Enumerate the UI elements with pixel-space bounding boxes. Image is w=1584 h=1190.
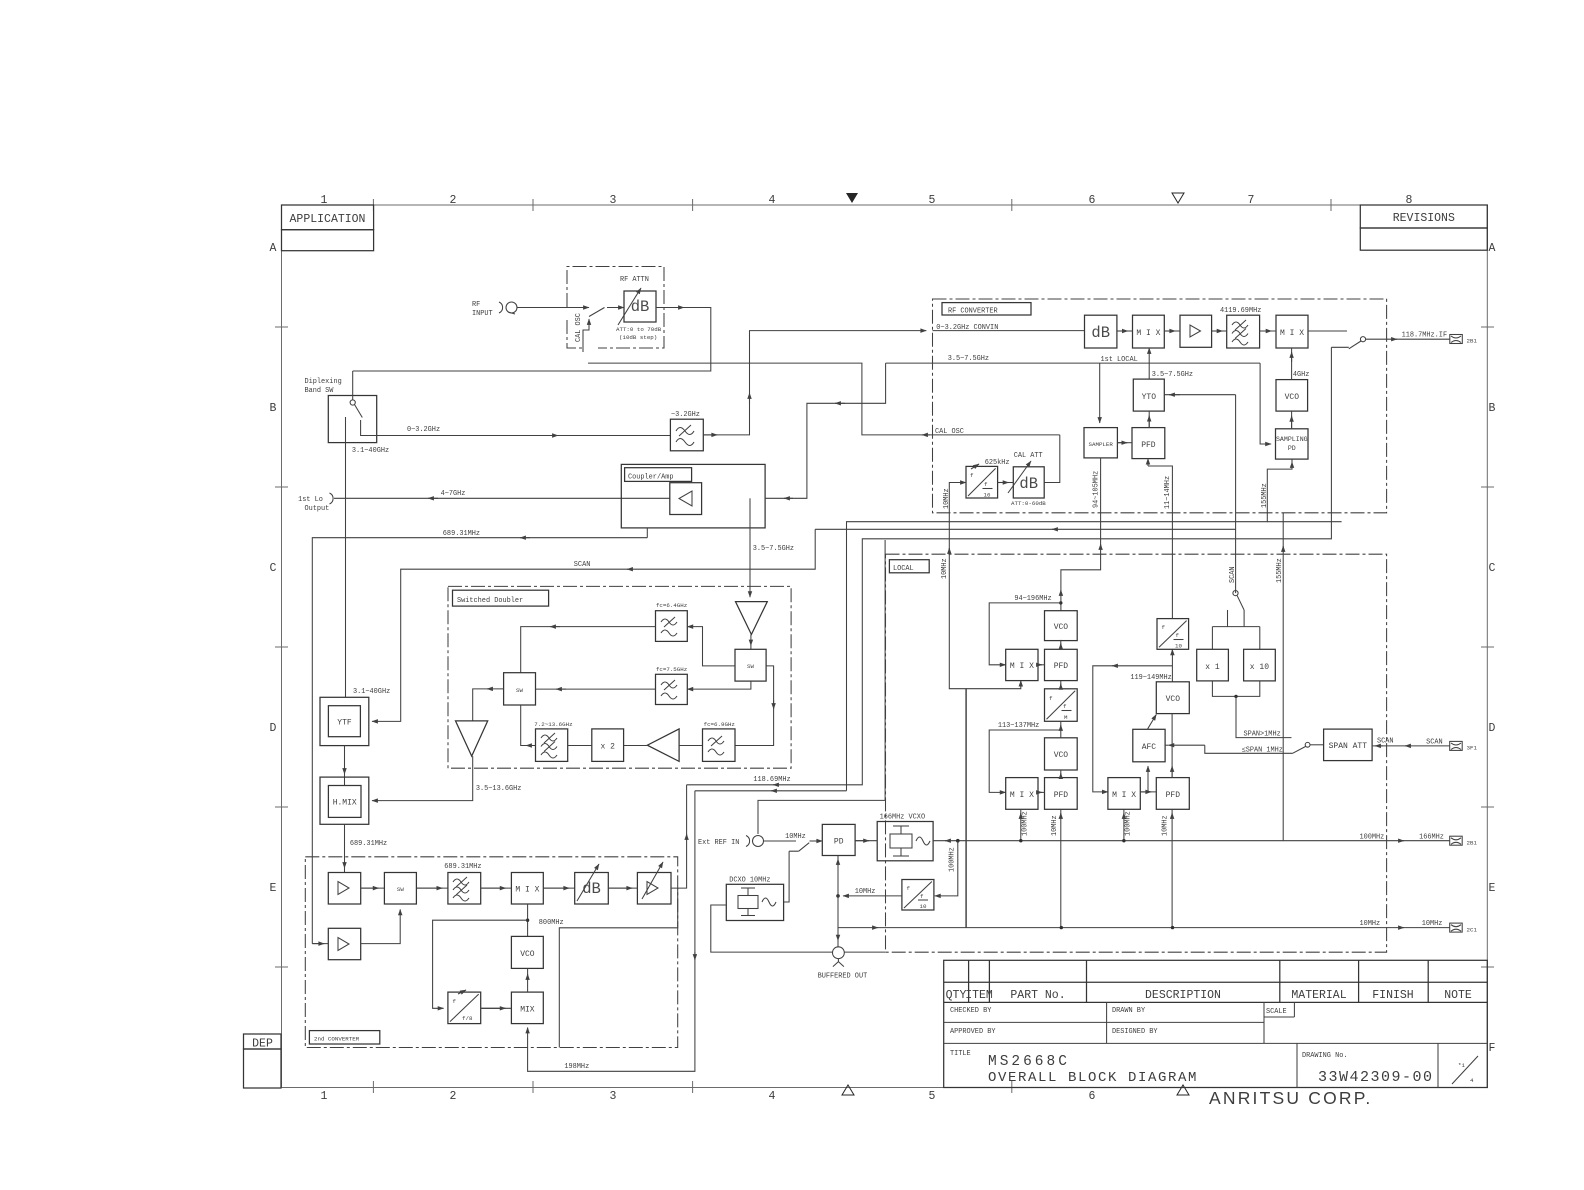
SCAN long line to left xyxy=(1267,521,1341,523)
svg-text:PFD: PFD xyxy=(1141,441,1156,450)
svg-text:BUFFERED OUT: BUFFERED OUT xyxy=(818,973,868,981)
svg-text:10MHz: 10MHz xyxy=(855,888,876,896)
SW right to 6.9 filter path xyxy=(735,666,774,746)
svg-text:3.5~7.5GHz: 3.5~7.5GHz xyxy=(1152,371,1193,379)
svg-text:DESIGNED BY: DESIGNED BY xyxy=(1112,1028,1158,1036)
svg-text:f: f xyxy=(1176,632,1180,639)
svg-text:689.31MHz: 689.31MHz xyxy=(443,530,480,538)
SAMPLING PD xyxy=(1276,429,1309,459)
SPAN ATT box xyxy=(1324,729,1373,761)
MIX2 xyxy=(511,992,543,1024)
SW right xyxy=(735,649,766,681)
svg-text:Diplexing: Diplexing xyxy=(305,378,342,386)
svg-text:M I X: M I X xyxy=(1112,791,1136,800)
svg-text:1st Lo: 1st Lo xyxy=(298,496,323,504)
svg-text:*1: *1 xyxy=(1458,1062,1465,1069)
svg-text:fc=6.4GHz: fc=6.4GHz xyxy=(656,602,688,609)
svg-text:MATERIAL: MATERIAL xyxy=(1291,989,1346,1002)
svg-text:LOCAL: LOCAL xyxy=(893,565,914,573)
column ticks top xyxy=(275,199,1494,1093)
revision triangles xyxy=(846,193,858,203)
svg-text:REVISIONS: REVISIONS xyxy=(1393,212,1455,225)
1st local line xyxy=(886,362,1261,364)
svg-text:3.1~40GHz: 3.1~40GHz xyxy=(353,688,390,696)
svg-text:10MHz: 10MHz xyxy=(1360,920,1381,928)
svg-text:D: D xyxy=(270,722,277,735)
dashed boundary xyxy=(886,554,1387,952)
MIX2/PFD2 bottom feeds xyxy=(1020,809,1022,840)
MIX2 xyxy=(1006,778,1038,810)
svg-text:3: 3 xyxy=(610,1090,617,1103)
switch xyxy=(799,843,810,852)
svg-text:SAMPLING: SAMPLING xyxy=(1276,436,1308,443)
svg-text:2: 2 xyxy=(450,194,457,207)
svg-text:Output: Output xyxy=(305,505,330,513)
RF ATTN unit dashed boundary xyxy=(567,267,664,349)
svg-text:~3.2GHz: ~3.2GHz xyxy=(671,411,700,419)
Coupler/Amp box xyxy=(621,464,765,528)
amp2 out up to 118.69 line xyxy=(671,785,687,888)
svg-text:Band SW: Band SW xyxy=(305,387,335,395)
title row xyxy=(1296,1043,1298,1087)
sampling pd left input from 1st local xyxy=(1260,363,1271,444)
svg-text:f: f xyxy=(1049,695,1053,702)
svg-text:D: D xyxy=(1489,722,1496,735)
svg-text:10MHz: 10MHz xyxy=(1051,815,1059,836)
sampler 94~105MHz down xyxy=(1061,458,1101,611)
PFD xyxy=(1132,428,1165,459)
svg-text:6: 6 xyxy=(1089,1090,1096,1103)
svg-text:fc=6.9GHz: fc=6.9GHz xyxy=(704,721,736,728)
svg-text:100MHz: 100MHz xyxy=(949,847,957,872)
svg-text:4~7GHz: 4~7GHz xyxy=(441,490,466,498)
MIX2 xyxy=(1276,315,1308,348)
x2 multiplier xyxy=(592,729,624,762)
svg-text:AFC: AFC xyxy=(1142,743,1157,752)
svg-text:Ext REF IN: Ext REF IN xyxy=(698,839,739,847)
svg-text:2B1: 2B1 xyxy=(1467,840,1478,847)
CAL switch xyxy=(589,308,605,317)
svg-text:689.31MHz: 689.31MHz xyxy=(350,840,387,848)
row letters xyxy=(270,242,1496,1055)
svg-text:VCO: VCO xyxy=(1054,623,1069,632)
svg-text:10MHz: 10MHz xyxy=(785,833,806,841)
amp1 xyxy=(328,873,360,905)
svg-text:f: f xyxy=(970,472,974,479)
dB amp U3 xyxy=(1085,315,1117,348)
amp2 control tap down xyxy=(559,888,677,1047)
svg-text:800MHz: 800MHz xyxy=(539,919,564,927)
amp2 variable xyxy=(637,873,671,905)
svg-text:SW: SW xyxy=(516,687,523,694)
svg-text:7: 7 xyxy=(1248,194,1255,207)
MIX1 xyxy=(1006,649,1038,680)
VCO xyxy=(511,936,543,968)
svg-text:113~137MHz: 113~137MHz xyxy=(998,722,1039,730)
column numbers xyxy=(321,194,1413,1103)
svg-text:4: 4 xyxy=(769,1090,776,1103)
svg-text:3F1: 3F1 xyxy=(1467,745,1478,752)
svg-text:DRAWN BY: DRAWN BY xyxy=(1112,1007,1146,1015)
svg-text:CAL ATT: CAL ATT xyxy=(1014,452,1043,460)
svg-text:FINISH: FINISH xyxy=(1372,989,1413,1002)
svg-text:7.2~13.6GHz: 7.2~13.6GHz xyxy=(534,721,573,728)
svg-text:QTY: QTY xyxy=(946,989,967,1002)
attenuator dB box A1 xyxy=(624,291,656,322)
svg-text:CHECKED BY: CHECKED BY xyxy=(950,1007,992,1015)
svg-text:H.MIX: H.MIX xyxy=(333,799,357,808)
MIX1 LO feed xyxy=(1148,348,1150,363)
svg-text:5: 5 xyxy=(929,194,936,207)
PFD3 xyxy=(1156,778,1189,810)
svg-text:f: f xyxy=(907,885,911,892)
svg-text:dB: dB xyxy=(582,880,601,898)
svg-text:M I X: M I X xyxy=(1280,329,1304,338)
frame border xyxy=(282,205,1488,1088)
svg-text:4: 4 xyxy=(769,194,776,207)
f/10 divider xyxy=(902,880,934,911)
svg-text:OVERALL BLOCK DIAGRAM: OVERALL BLOCK DIAGRAM xyxy=(988,1070,1198,1086)
wire SW to 6.4 filter xyxy=(687,627,735,666)
wire ATTN out xyxy=(353,308,711,372)
svg-text:10MHz: 10MHz xyxy=(1162,815,1170,836)
svg-text:F: F xyxy=(1489,1042,1496,1055)
DCXO out to buffered xyxy=(711,905,833,952)
11~14MHz divider f/10 xyxy=(1157,619,1189,650)
H.MIX A3 xyxy=(320,777,369,824)
svg-text:f/8: f/8 xyxy=(462,1015,473,1022)
svg-text:166MHz VCXO: 166MHz VCXO xyxy=(880,814,926,822)
svg-text:100MHz: 100MHz xyxy=(1125,811,1133,836)
MIX1 xyxy=(1133,315,1165,348)
PFD2 xyxy=(1045,778,1078,810)
svg-text:10MHz: 10MHz xyxy=(1422,920,1443,928)
svg-text:f: f xyxy=(1162,624,1166,631)
svg-text:E: E xyxy=(270,882,277,895)
amp3 lower xyxy=(328,928,360,959)
6.4 filter out to SW left xyxy=(521,627,656,673)
svg-text:PD: PD xyxy=(1288,445,1296,452)
100MHz bus xyxy=(958,840,1450,842)
svg-text:RF: RF xyxy=(472,301,480,309)
YTF to H.MIX xyxy=(344,746,346,774)
coupler tap down to 689.31 line xyxy=(646,528,648,538)
svg-text:M: M xyxy=(1064,714,1068,721)
svg-text:155MHz: 155MHz xyxy=(1261,483,1269,508)
svg-text:0~3.2GHz: 0~3.2GHz xyxy=(407,426,440,434)
AFC input line xyxy=(1165,744,1168,746)
svg-text:10MHz: 10MHz xyxy=(941,558,949,579)
10MHz into divider xyxy=(949,483,966,547)
svg-text:VCO: VCO xyxy=(1054,751,1069,760)
SW left output to amp xyxy=(473,689,504,721)
svg-text:11~14MHz: 11~14MHz xyxy=(1164,476,1172,509)
svg-text:DRAWING No.: DRAWING No. xyxy=(1302,1052,1348,1060)
svg-text:2nd CONVERTER: 2nd CONVERTER xyxy=(314,1036,360,1043)
MIX bottom to VCO loop xyxy=(527,904,529,936)
PFD1 xyxy=(1045,649,1078,680)
input amp Q1 (pointing down) xyxy=(736,602,768,635)
svg-text:10MHz: 10MHz xyxy=(943,488,951,509)
amp (pointing left) xyxy=(647,729,679,762)
svg-text:3.1~40GHz: 3.1~40GHz xyxy=(352,447,389,455)
svg-text:DCXO 10MHz: DCXO 10MHz xyxy=(729,877,770,885)
svg-text:118.69MHz: 118.69MHz xyxy=(753,776,790,784)
svg-text:16: 16 xyxy=(984,492,991,499)
svg-text:4119.69MHz: 4119.69MHz xyxy=(1220,307,1261,315)
svg-text:f: f xyxy=(920,893,924,900)
sampling pd bottom 155MHz out xyxy=(847,459,1293,791)
SW left xyxy=(504,673,536,705)
svg-text:ANRITSU CORP.: ANRITSU CORP. xyxy=(1209,1088,1372,1108)
svg-text:SW: SW xyxy=(747,663,754,670)
svg-text:TITLE: TITLE xyxy=(950,1050,971,1058)
svg-text:SAMPLER: SAMPLER xyxy=(1089,441,1114,448)
svg-text:f: f xyxy=(1063,703,1067,710)
svg-text:166MHz: 166MHz xyxy=(1419,834,1444,842)
svg-text:SCAN: SCAN xyxy=(574,561,591,569)
svg-text:RF CONVERTER: RF CONVERTER xyxy=(948,308,998,316)
svg-text:C: C xyxy=(270,562,277,575)
7.5 filter to SW left xyxy=(536,688,656,690)
svg-text:2C1: 2C1 xyxy=(1467,927,1478,934)
junction: coupler line down to doubler xyxy=(749,498,751,597)
svg-text:INPUT: INPUT xyxy=(472,310,493,318)
svg-text:5: 5 xyxy=(929,1090,936,1103)
svg-text:198MHz: 198MHz xyxy=(564,1063,589,1071)
svg-text:4: 4 xyxy=(1470,1077,1474,1084)
span switch xyxy=(1293,747,1306,754)
svg-text:33W42309-00: 33W42309-00 xyxy=(1318,1069,1434,1086)
svg-text:APPROVED BY: APPROVED BY xyxy=(950,1028,996,1036)
svg-text:2: 2 xyxy=(450,1090,457,1103)
svg-text:M I X: M I X xyxy=(1010,791,1034,800)
svg-text:A: A xyxy=(1489,242,1496,255)
svg-text:PFD: PFD xyxy=(1166,791,1181,800)
svg-text:B: B xyxy=(270,402,277,415)
connector 2B1 (IF) xyxy=(1450,335,1463,344)
svg-text:100MHz: 100MHz xyxy=(1360,834,1385,842)
svg-text:DEP: DEP xyxy=(252,1038,273,1051)
svg-text:YTF: YTF xyxy=(337,719,352,728)
amp U4 xyxy=(1180,315,1212,347)
VCO3 xyxy=(1156,682,1189,714)
svg-text:NOTE: NOTE xyxy=(1444,989,1472,1002)
svg-text:6: 6 xyxy=(1089,194,1096,207)
svg-text:CAL OSC: CAL OSC xyxy=(575,313,583,342)
svg-text:3.5~7.5GHz: 3.5~7.5GHz xyxy=(753,545,794,553)
svg-text:x 10: x 10 xyxy=(1250,663,1269,672)
dB variable xyxy=(575,873,609,905)
f/M divider xyxy=(1045,689,1078,722)
svg-text:1: 1 xyxy=(321,1090,328,1103)
svg-text:100MHz: 100MHz xyxy=(1022,811,1030,836)
YTO scan drive xyxy=(1164,394,1235,396)
svg-text:M I X: M I X xyxy=(1010,662,1034,671)
wire RF input to CAL switch xyxy=(517,307,589,309)
AFC xyxy=(1133,729,1165,762)
SW xyxy=(384,873,416,905)
svg-text:MIX: MIX xyxy=(520,1006,535,1015)
svg-text:RF ATTN: RF ATTN xyxy=(620,276,649,284)
f/8 divider xyxy=(448,992,481,1024)
YTF A2 xyxy=(320,697,369,745)
svg-text:B: B xyxy=(1489,402,1496,415)
svg-text:DESCRIPTION: DESCRIPTION xyxy=(1145,989,1221,1002)
svg-text:≤SPAN 1MHz: ≤SPAN 1MHz xyxy=(1242,747,1283,755)
dashed boundary xyxy=(448,586,791,768)
x1 box xyxy=(1197,649,1229,681)
MIX3 xyxy=(1108,778,1140,810)
svg-text:10: 10 xyxy=(1175,643,1182,650)
svg-text:SPAN>1MHz: SPAN>1MHz xyxy=(1244,731,1281,739)
checked/drawn rows xyxy=(944,1021,1264,1023)
svg-text:SCAN: SCAN xyxy=(1426,739,1443,747)
svg-text:ATT:0-60dB: ATT:0-60dB xyxy=(1011,500,1046,507)
dashed boundary xyxy=(305,857,677,1048)
svg-text:SCALE: SCALE xyxy=(1266,1008,1287,1016)
svg-text:YTO: YTO xyxy=(1142,393,1157,402)
svg-text:3.5~7.5GHz: 3.5~7.5GHz xyxy=(948,355,989,363)
10MHz bottom bus xyxy=(838,927,1450,929)
svg-text:f: f xyxy=(984,481,988,488)
svg-text:ATT:0 to 70dB: ATT:0 to 70dB xyxy=(616,326,662,333)
svg-text:M I X: M I X xyxy=(1136,329,1160,338)
x10 box xyxy=(1244,649,1276,681)
svg-text:4GHz: 4GHz xyxy=(1293,371,1310,379)
svg-text:MS2668C: MS2668C xyxy=(988,1054,1070,1070)
svg-text:3: 3 xyxy=(610,194,617,207)
svg-text:dB: dB xyxy=(1019,475,1038,493)
svg-text:f: f xyxy=(453,998,457,1005)
MIX2 IF out to switch and 2B1 xyxy=(1308,330,1347,332)
svg-text:M I X: M I X xyxy=(515,886,539,895)
svg-text:VCO: VCO xyxy=(1166,695,1181,704)
svg-text:PD: PD xyxy=(834,838,844,847)
wire convin to dB xyxy=(933,330,1085,332)
VCO1 xyxy=(1045,611,1078,641)
VCXO out xyxy=(933,840,958,842)
svg-text:C: C xyxy=(1489,562,1496,575)
MIX xyxy=(511,873,543,905)
LPF out up to converter xyxy=(703,434,717,436)
coupler input from 1st local xyxy=(765,363,886,498)
VCO2 xyxy=(1045,738,1078,770)
svg-text:Coupler/Amp: Coupler/Amp xyxy=(628,474,674,482)
svg-text:VCO: VCO xyxy=(520,950,535,959)
svg-text:dB: dB xyxy=(1091,324,1110,342)
svg-text:VCO: VCO xyxy=(1285,393,1300,402)
svg-text:PFD: PFD xyxy=(1054,791,1069,800)
svg-text:SPAN ATT: SPAN ATT xyxy=(1329,742,1368,751)
svg-text:PFD: PFD xyxy=(1054,662,1069,671)
10MHz distribution vertical xyxy=(949,546,966,928)
wire SW right bottom to 7.5 filter xyxy=(687,681,751,689)
svg-text:PART No.: PART No. xyxy=(1010,989,1065,1002)
svg-text:94~196MHz: 94~196MHz xyxy=(1014,595,1051,603)
SAMPLER xyxy=(1084,428,1117,458)
svg-text:119~149MHz: 119~149MHz xyxy=(1130,674,1171,682)
svg-text:APPLICATION: APPLICATION xyxy=(290,213,366,226)
svg-text:ITEM: ITEM xyxy=(965,989,993,1002)
PD box xyxy=(822,824,855,855)
amp (left facing) U2 xyxy=(670,483,702,515)
svg-text:2B1: 2B1 xyxy=(1467,338,1478,345)
svg-text:689.31MHz: 689.31MHz xyxy=(444,863,481,871)
10MHz riser to LOCAL/converter xyxy=(965,689,967,928)
output amp (pointing down) xyxy=(456,721,488,756)
svg-text:E: E xyxy=(1489,882,1496,895)
svg-text:94~105MHz: 94~105MHz xyxy=(1093,471,1101,508)
svg-text:fc=7.5GHz: fc=7.5GHz xyxy=(656,666,688,673)
svg-text:10: 10 xyxy=(920,903,927,910)
svg-text:SW: SW xyxy=(397,886,404,893)
SCAN wire into YTF xyxy=(372,529,815,721)
BUFFERED OUT xyxy=(833,947,845,959)
bottom bus of x1/x10 xyxy=(1212,681,1259,697)
svg-text:x 2: x 2 xyxy=(600,743,615,752)
MIX3/PFD3 bottom feeds xyxy=(1123,809,1125,840)
svg-text:118.7MHz.IF: 118.7MHz.IF xyxy=(1402,332,1448,340)
svg-text:Switched Doubler: Switched Doubler xyxy=(457,597,523,605)
svg-text:(10dB step): (10dB step) xyxy=(619,334,657,341)
svg-text:3.5~13.6GHz: 3.5~13.6GHz xyxy=(476,785,522,793)
svg-text:A: A xyxy=(270,242,277,255)
SCAN switch to x1/x10 xyxy=(1233,591,1238,596)
wire band SW down to YTF xyxy=(345,443,347,698)
PFD bottom input 11~14MHz xyxy=(1147,459,1149,466)
dashed boundary xyxy=(933,299,1387,513)
svg-text:x 1: x 1 xyxy=(1205,663,1220,672)
svg-text:SCAN: SCAN xyxy=(1377,738,1394,746)
